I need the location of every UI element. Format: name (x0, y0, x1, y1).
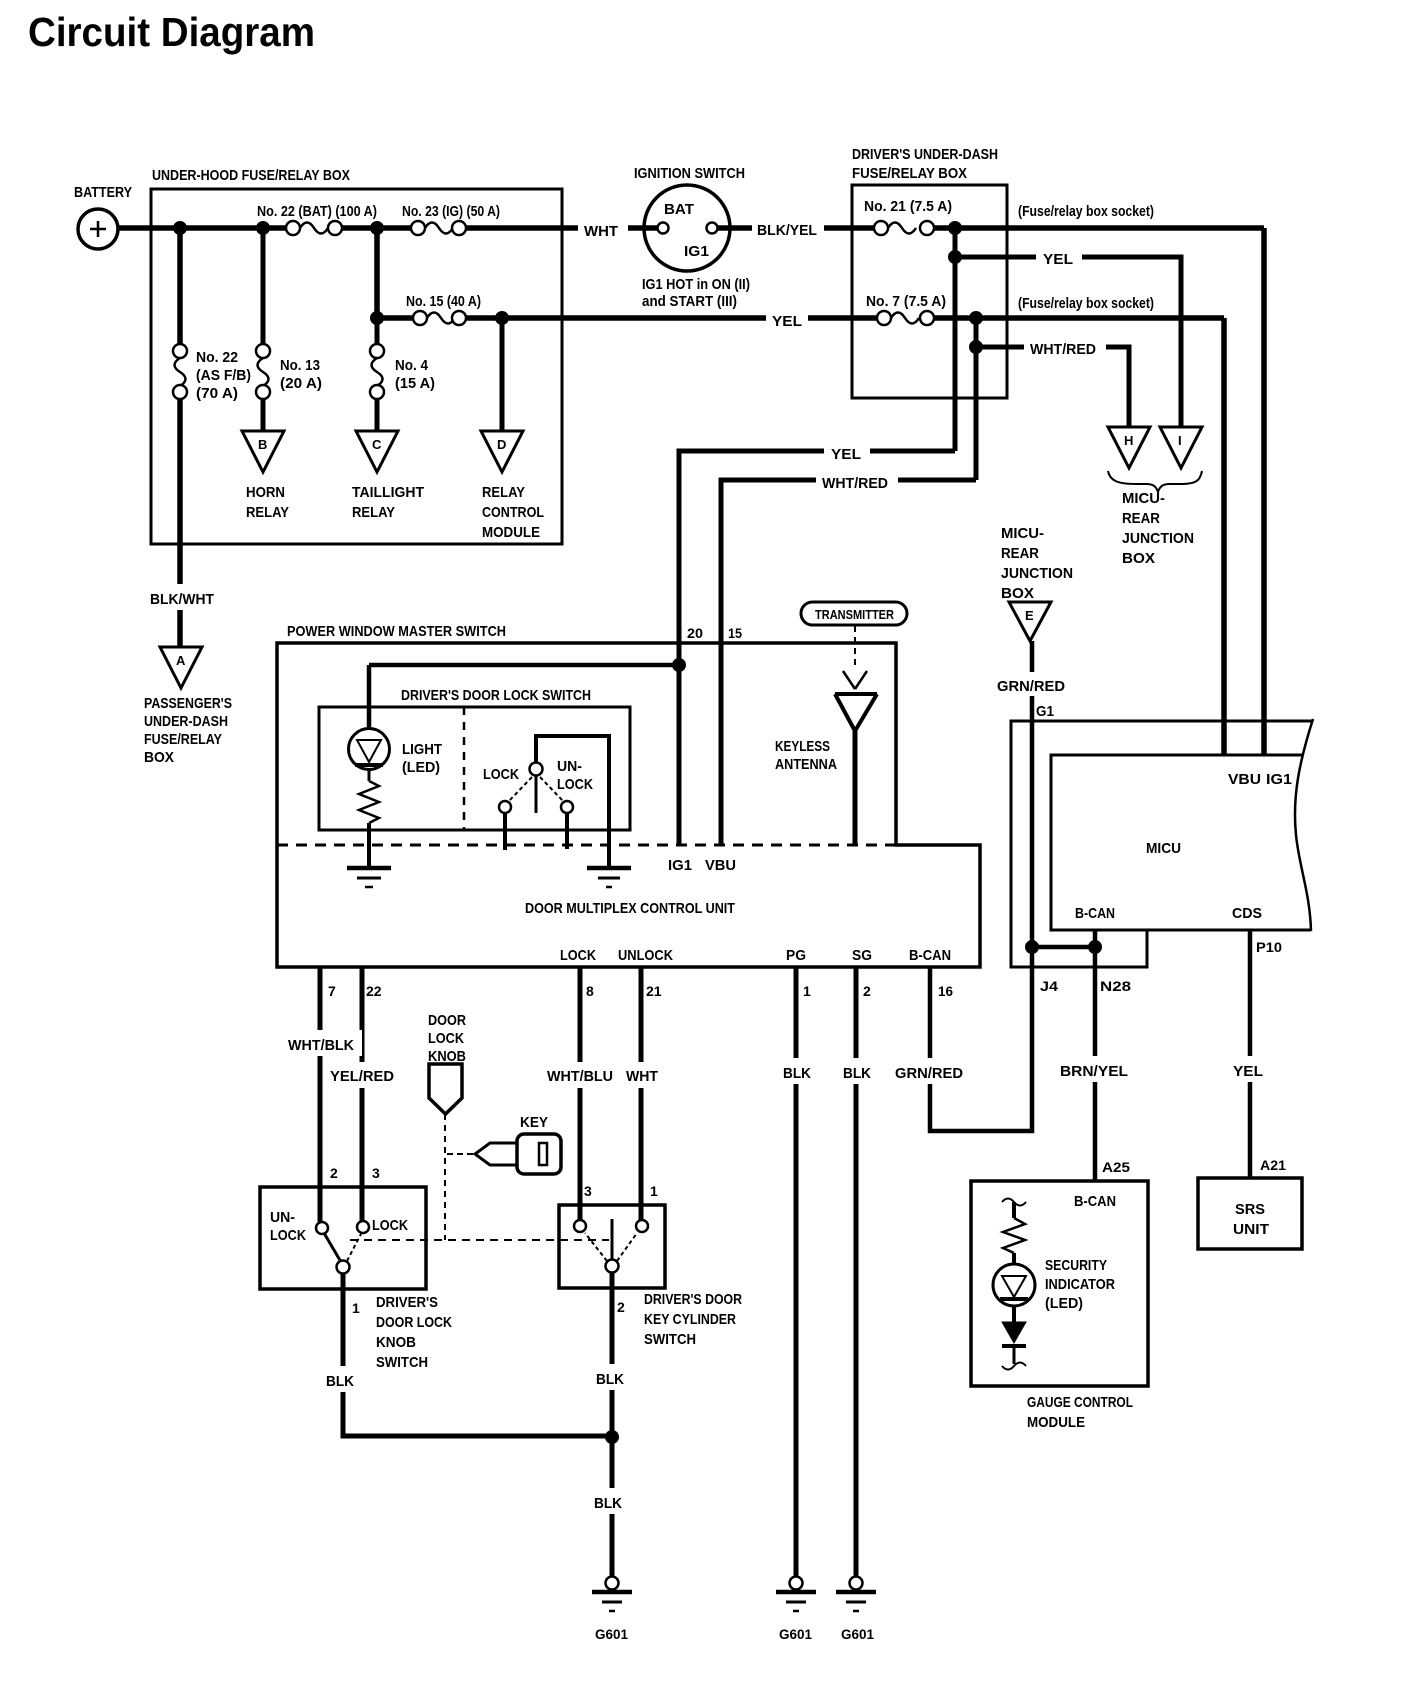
wire label WHT/RED left (816, 469, 898, 493)
connector B horn relay (242, 431, 289, 521)
wire junction G1 to B-CAN (1032, 947, 1095, 994)
resistor R1 (359, 769, 379, 867)
svg-text:A21: A21 (1260, 1157, 1286, 1173)
MICU connector outer box (1011, 721, 1313, 967)
svg-text:DRIVER'S DOOR: DRIVER'S DOOR (644, 1291, 742, 1308)
svg-text:DRIVER'S: DRIVER'S (376, 1294, 438, 1311)
fuse No.22 (BAT) (100 A) (257, 203, 377, 235)
wire label BLK pin2 (838, 1058, 878, 1084)
svg-text:MICU-: MICU- (1001, 525, 1044, 542)
security indicator LED D2 (993, 1257, 1115, 1312)
wire YEL to connector I (955, 257, 1181, 427)
svg-text:VBU: VBU (705, 857, 736, 874)
svg-text:LOCK: LOCK (560, 947, 596, 964)
node junction BLK (606, 1431, 619, 1444)
gauge control module box (971, 1181, 1148, 1431)
wire label WHT/RED right (1024, 336, 1106, 360)
wire pin 7 WHT/BLK (320, 967, 336, 1222)
wire label YEL/RED (326, 1062, 402, 1088)
wire label BLK key cylinder (590, 1364, 632, 1390)
svg-text:BOX: BOX (1122, 550, 1155, 567)
svg-text:B-CAN: B-CAN (1074, 1193, 1116, 1210)
brace micu-rear junction box (1108, 471, 1202, 567)
svg-text:B-CAN: B-CAN (909, 947, 951, 964)
wire pin 8 WHT/BLU (580, 967, 594, 1220)
wire BLK/YEL ignition to under-dash box (717, 225, 874, 231)
MICU unit box U1 (1051, 755, 1311, 930)
svg-text:(LED): (LED) (402, 759, 440, 776)
pin B-CAN label (909, 947, 951, 964)
wire label GRN/RED E wire (993, 672, 1073, 696)
wire YEL branch down from No.21 (953, 228, 958, 451)
svg-text:KEYLESS: KEYLESS (775, 738, 830, 755)
wire pin 22 YEL/RED (362, 967, 382, 1221)
svg-text:8: 8 (586, 983, 594, 999)
ignition switch SW1 (634, 165, 750, 310)
wire label YEL bus2 (766, 306, 808, 332)
svg-text:JUNCTION: JUNCTION (1122, 530, 1194, 547)
svg-text:(15 A): (15 A) (395, 375, 435, 392)
pin 16 label (938, 983, 953, 999)
wire BLK key cylinder to ground G601 (610, 1272, 615, 1577)
connector D relay control module (481, 431, 544, 541)
svg-text:INDICATOR: INDICATOR (1045, 1276, 1115, 1293)
svg-text:2: 2 (330, 1165, 338, 1181)
svg-text:SWITCH: SWITCH (644, 1331, 696, 1348)
svg-text:BLK: BLK (596, 1371, 624, 1388)
svg-text:RELAY: RELAY (352, 504, 395, 521)
svg-text:Circuit Diagram: Circuit Diagram (28, 9, 315, 55)
wire GRN/RED from E to G1 (1032, 641, 1054, 947)
svg-text:UN-: UN- (270, 1209, 295, 1226)
connector H (1108, 427, 1150, 468)
node dots J4 N28 (1026, 941, 1102, 954)
key K1 (475, 1114, 561, 1174)
wire WHT/RED to master switch pin 15 (721, 480, 976, 846)
svg-text:A: A (176, 653, 186, 668)
svg-text:CONTROL: CONTROL (482, 504, 544, 521)
svg-text:LOCK: LOCK (483, 766, 519, 783)
svg-text:UNDER-HOOD FUSE/RELAY BOX: UNDER-HOOD FUSE/RELAY BOX (152, 167, 350, 184)
wire IG1 to LED light (369, 665, 679, 729)
wire to relay control module (500, 318, 505, 431)
fuse No.21 (7.5 A) (864, 198, 952, 235)
svg-text:LOCK: LOCK (270, 1227, 306, 1244)
fuse No.23 (IG) (50 A) (402, 203, 500, 235)
wire label YEL right (1036, 246, 1082, 270)
svg-text:1: 1 (650, 1183, 658, 1199)
keyless antenna AT1 (775, 694, 877, 845)
svg-text:PG: PG (786, 947, 806, 964)
ground G601 key cylinder (592, 1577, 632, 1643)
driver's under-dash fuse/relay box (852, 146, 1007, 398)
light LED D1 (349, 729, 443, 777)
svg-text:and START (III): and START (III) (642, 293, 737, 310)
svg-text:YEL: YEL (772, 313, 802, 330)
svg-text:MODULE: MODULE (1027, 1414, 1085, 1431)
svg-text:UNLOCK: UNLOCK (618, 947, 673, 964)
svg-text:(20 A): (20 A) (280, 375, 322, 392)
wire YEL bus No.15 row (377, 228, 1224, 318)
svg-text:MICU-: MICU- (1122, 490, 1165, 507)
svg-text:2: 2 (617, 1299, 625, 1315)
svg-text:G601: G601 (595, 1626, 628, 1642)
svg-text:UN-: UN- (557, 758, 582, 775)
svg-text:BLK: BLK (783, 1065, 811, 1082)
svg-text:I: I (1178, 433, 1182, 448)
svg-text:POWER WINDOW MASTER SWITCH: POWER WINDOW MASTER SWITCH (287, 623, 506, 640)
wire fuse/relay box socket to MICU IG1 (934, 203, 1264, 755)
fuse No.13 (20 A) (256, 344, 322, 399)
svg-text:(Fuse/relay box socket): (Fuse/relay box socket) (1018, 295, 1154, 312)
battery B1 (74, 184, 132, 249)
svg-text:LIGHT: LIGHT (402, 741, 442, 758)
wire YEL to master switch pin 20 (679, 451, 955, 846)
wire MICU B-CAN to gauge module (1095, 930, 1131, 1181)
ground LED (347, 868, 391, 887)
svg-text:B-CAN: B-CAN (1075, 905, 1115, 922)
ground G601 pin2 (836, 1577, 876, 1643)
svg-text:IG1: IG1 (668, 857, 692, 874)
svg-text:BRN/YEL: BRN/YEL (1060, 1063, 1128, 1080)
svg-text:YEL: YEL (1043, 251, 1073, 268)
svg-text:ANTENNA: ANTENNA (775, 756, 837, 773)
svg-text:7: 7 (328, 983, 336, 999)
svg-text:VBU: VBU (1228, 771, 1261, 788)
svg-text:PASSENGER'S: PASSENGER'S (144, 695, 232, 712)
svg-text:RELAY: RELAY (246, 504, 289, 521)
wire to taillight relay (375, 318, 380, 431)
svg-text:BLK: BLK (594, 1495, 622, 1512)
pin PG label (786, 947, 806, 964)
svg-text:SRS: SRS (1235, 1201, 1265, 1218)
svg-text:REAR: REAR (1122, 510, 1160, 527)
wire pin 21 WHT (641, 967, 662, 1220)
svg-text:FUSE/RELAY BOX: FUSE/RELAY BOX (852, 165, 967, 182)
transmitter (801, 602, 907, 625)
svg-text:HORN: HORN (246, 484, 285, 501)
fuse No.7 (7.5 A) (866, 293, 946, 325)
node dots under-dash (949, 222, 983, 354)
svg-text:YEL/RED: YEL/RED (330, 1068, 394, 1085)
svg-text:P10: P10 (1256, 939, 1282, 955)
svg-text:SWITCH: SWITCH (376, 1354, 428, 1371)
wire dashed transmitter signal (843, 626, 867, 689)
svg-text:1: 1 (803, 983, 811, 999)
torn page edge (1295, 719, 1313, 931)
wire label BLK lower (588, 1488, 630, 1514)
node dot IG1 branch (673, 659, 686, 672)
driver's door lock knob switch SW3 (260, 1165, 452, 1371)
svg-text:BLK: BLK (326, 1373, 354, 1390)
fuse No.15 (40 A) (406, 293, 481, 325)
wire WHT/RED to connector H (976, 347, 1129, 427)
svg-text:WHT/BLU: WHT/BLU (547, 1068, 613, 1085)
wire label BLK knob switch (320, 1366, 362, 1392)
svg-text:SG: SG (852, 947, 872, 964)
svg-text:GRN/RED: GRN/RED (997, 678, 1065, 695)
svg-text:No. 15 (40 A): No. 15 (40 A) (406, 293, 481, 310)
wire dashed knob linkage (350, 1114, 609, 1240)
svg-text:BLK/YEL: BLK/YEL (757, 222, 817, 239)
svg-text:KNOB: KNOB (428, 1048, 466, 1065)
svg-text:KEY CYLINDER: KEY CYLINDER (644, 1311, 736, 1328)
svg-text:3: 3 (372, 1165, 380, 1181)
svg-text:LOCK: LOCK (372, 1217, 408, 1234)
svg-text:DOOR LOCK: DOOR LOCK (376, 1314, 452, 1331)
door multiplex control unit label (525, 900, 735, 917)
wire label GRN/RED pin16 (891, 1058, 971, 1084)
svg-text:(Fuse/relay box socket): (Fuse/relay box socket) (1018, 203, 1154, 220)
wire GRN/RED pin16 to J4 (930, 947, 1032, 1131)
svg-text:FUSE/RELAY: FUSE/RELAY (144, 731, 222, 748)
wire label YEL SRS (1226, 1056, 1272, 1082)
wire fuse/relay box socket to MICU VBU (1018, 295, 1224, 755)
svg-text:YEL: YEL (1233, 1063, 1263, 1080)
svg-text:BOX: BOX (1001, 585, 1034, 602)
svg-text:KEY: KEY (520, 1114, 548, 1131)
door lock switch SW2 (483, 736, 609, 866)
svg-text:DRIVER'S UNDER-DASH: DRIVER'S UNDER-DASH (852, 146, 998, 163)
svg-text:IGNITION SWITCH: IGNITION SWITCH (634, 165, 745, 182)
svg-text:No. 4: No. 4 (395, 357, 429, 374)
wire label WHT/BLU (543, 1062, 623, 1088)
svg-text:15: 15 (728, 625, 742, 641)
svg-text:MODULE: MODULE (482, 524, 540, 541)
wire label WHT (621, 1062, 663, 1088)
svg-text:LOCK: LOCK (428, 1030, 464, 1047)
svg-text:JUNCTION: JUNCTION (1001, 565, 1073, 582)
svg-text:BOX: BOX (144, 749, 174, 766)
svg-text:IG1 HOT in ON (II): IG1 HOT in ON (II) (642, 276, 750, 293)
svg-text:REAR: REAR (1001, 545, 1039, 562)
fuse No.4 (15 A) (370, 344, 435, 399)
svg-text:No. 22: No. 22 (196, 349, 238, 366)
svg-text:GRN/RED: GRN/RED (895, 1065, 963, 1082)
svg-text:No. 7 (7.5 A): No. 7 (7.5 A) (866, 293, 946, 310)
svg-text:No. 13: No. 13 (280, 357, 320, 374)
svg-text:J4: J4 (1040, 978, 1058, 994)
ground G601 pin1 (776, 1577, 816, 1643)
svg-text:DRIVER'S DOOR LOCK SWITCH: DRIVER'S DOOR LOCK SWITCH (401, 687, 591, 704)
diode D3 (1002, 1306, 1026, 1370)
wire WHT bus battery to ignition (118, 225, 657, 231)
svg-text:TAILLIGHT: TAILLIGHT (352, 484, 424, 501)
pin LOCK label (560, 947, 596, 964)
svg-text:WHT/RED: WHT/RED (822, 475, 888, 492)
svg-text:GAUGE CONTROL: GAUGE CONTROL (1027, 1394, 1133, 1411)
svg-text:(AS F/B): (AS F/B) (196, 367, 251, 384)
svg-text:16: 16 (938, 983, 953, 999)
svg-text:DOOR MULTIPLEX CONTROL UNIT: DOOR MULTIPLEX CONTROL UNIT (525, 900, 735, 917)
svg-text:(70 A): (70 A) (196, 385, 238, 402)
svg-text:No. 23 (IG) (50 A): No. 23 (IG) (50 A) (402, 203, 500, 220)
svg-text:N28: N28 (1100, 978, 1131, 994)
svg-text:BAT: BAT (664, 201, 694, 218)
svg-text:UNDER-DASH: UNDER-DASH (144, 713, 228, 730)
svg-text:D: D (497, 437, 506, 452)
svg-text:1: 1 (352, 1300, 360, 1316)
wire BLK/WHT down from battery junction (177, 228, 183, 647)
svg-text:SECURITY: SECURITY (1045, 1257, 1107, 1274)
pin 15 label (728, 625, 742, 641)
svg-text:No. 21 (7.5 A): No. 21 (7.5 A) (864, 198, 952, 215)
wire BLK knob switch to junction (343, 1273, 612, 1436)
svg-text:WHT/BLK: WHT/BLK (288, 1037, 354, 1054)
wire label WHT/BLK (284, 1030, 362, 1056)
connector C taillight relay (352, 431, 424, 521)
svg-text:MICU: MICU (1146, 840, 1181, 857)
driver's door key cylinder switch SW4 (559, 1183, 742, 1348)
SRS unit box (1198, 1178, 1302, 1249)
svg-text:A25: A25 (1102, 1159, 1130, 1175)
wire MICU CDS to SRS unit (1250, 930, 1286, 1178)
wire pin 1 BLK to ground (796, 967, 811, 1577)
svg-text:G601: G601 (779, 1626, 812, 1642)
wire pin 2 BLK to ground (856, 967, 871, 1577)
connector I (1160, 427, 1202, 468)
svg-text:20: 20 (687, 625, 703, 641)
svg-text:G1: G1 (1036, 703, 1054, 720)
node junction dots bus2 (371, 312, 509, 325)
svg-text:BLK: BLK (843, 1065, 871, 1082)
wire label BLK/WHT (146, 584, 222, 610)
driver's door lock switch box (319, 687, 630, 830)
wire label BRN/YEL (1056, 1056, 1136, 1082)
svg-text:WHT: WHT (584, 223, 618, 240)
pin 20 label (687, 625, 703, 641)
svg-text:CDS: CDS (1232, 905, 1262, 922)
svg-text:WHT/RED: WHT/RED (1030, 341, 1096, 358)
svg-text:IG1: IG1 (1266, 771, 1292, 788)
svg-text:KNOB: KNOB (376, 1334, 416, 1351)
door lock knob (428, 1012, 466, 1114)
svg-text:C: C (372, 437, 382, 452)
svg-text:LOCK: LOCK (557, 776, 593, 793)
svg-text:B: B (258, 437, 267, 452)
wire label WHT (578, 216, 628, 240)
power window master switch box (277, 623, 980, 967)
pin UNLOCK label (618, 947, 673, 964)
svg-text:G601: G601 (841, 1626, 874, 1642)
svg-text:WHT: WHT (626, 1068, 658, 1085)
ground door lock switch (587, 868, 631, 887)
svg-text:UNIT: UNIT (1233, 1221, 1269, 1238)
svg-text:21: 21 (646, 983, 662, 999)
svg-text:(LED): (LED) (1045, 1295, 1083, 1312)
wire label BLK/YEL (752, 214, 824, 240)
svg-text:3: 3 (584, 1183, 592, 1199)
svg-text:E: E (1025, 608, 1034, 623)
wire WHT/RED branch down from No.7 (974, 318, 979, 480)
svg-text:22: 22 (366, 983, 382, 999)
svg-text:TRANSMITTER: TRANSMITTER (815, 607, 895, 622)
svg-text:DOOR: DOOR (428, 1012, 466, 1029)
svg-text:RELAY: RELAY (482, 484, 525, 501)
fuse No.22 (AS F/B) (70 A) (173, 344, 251, 402)
node junction dots on bus1 (174, 222, 384, 235)
connector E micu-rear junction box (1001, 525, 1073, 641)
svg-text:H: H (1124, 433, 1133, 448)
wire label YEL left (824, 440, 870, 464)
pin SG label (852, 947, 872, 964)
svg-text:No. 22 (BAT) (100 A): No. 22 (BAT) (100 A) (257, 203, 377, 220)
svg-text:YEL: YEL (831, 446, 861, 463)
svg-text:BLK/WHT: BLK/WHT (150, 591, 214, 608)
svg-text:BATTERY: BATTERY (74, 184, 132, 201)
connector A passenger's under-dash fuse/relay box (144, 647, 232, 766)
under-hood fuse/relay box (151, 167, 562, 544)
svg-text:IG1: IG1 (684, 243, 709, 260)
pin VBU label (705, 857, 736, 874)
wire label BLK pin1 (778, 1058, 818, 1084)
wire to horn relay (261, 228, 266, 431)
title (28, 9, 315, 55)
pin IG1 label (668, 857, 692, 874)
svg-text:2: 2 (863, 983, 871, 999)
resistor R2 in gauge module (1002, 1199, 1026, 1266)
